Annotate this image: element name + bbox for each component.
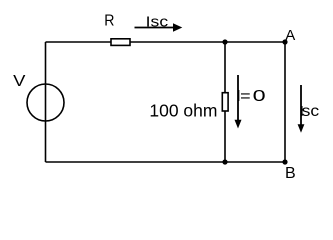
wire right (A to B) bbox=[284, 42, 286, 162]
arrow Isc (right) bbox=[298, 85, 305, 133]
junction node top bbox=[222, 39, 227, 44]
svg-text:100 ohm: 100 ohm bbox=[149, 101, 217, 121]
svg-text:0: 0 bbox=[253, 88, 266, 105]
wire left bbox=[45, 42, 47, 162]
svg-text:sc: sc bbox=[302, 103, 320, 120]
svg-text:A: A bbox=[285, 27, 295, 44]
voltage source V bbox=[27, 84, 64, 121]
node A bbox=[282, 39, 287, 44]
resistor 100 ohm bbox=[222, 93, 228, 111]
svg-text:V: V bbox=[13, 73, 26, 90]
svg-text:=: = bbox=[240, 88, 251, 105]
resistor R bbox=[111, 39, 130, 46]
svg-text:Isc: Isc bbox=[146, 13, 169, 30]
arrow Isc (top) bbox=[135, 23, 183, 31]
svg-text:R: R bbox=[104, 13, 114, 30]
junction node bottom bbox=[222, 159, 227, 164]
svg-text:B: B bbox=[285, 165, 296, 182]
node B bbox=[282, 159, 287, 164]
arrow I=0 bbox=[235, 75, 242, 129]
wire top bbox=[46, 41, 286, 43]
wire branch (100 ohm) bbox=[224, 42, 226, 162]
wire bottom bbox=[46, 161, 286, 163]
